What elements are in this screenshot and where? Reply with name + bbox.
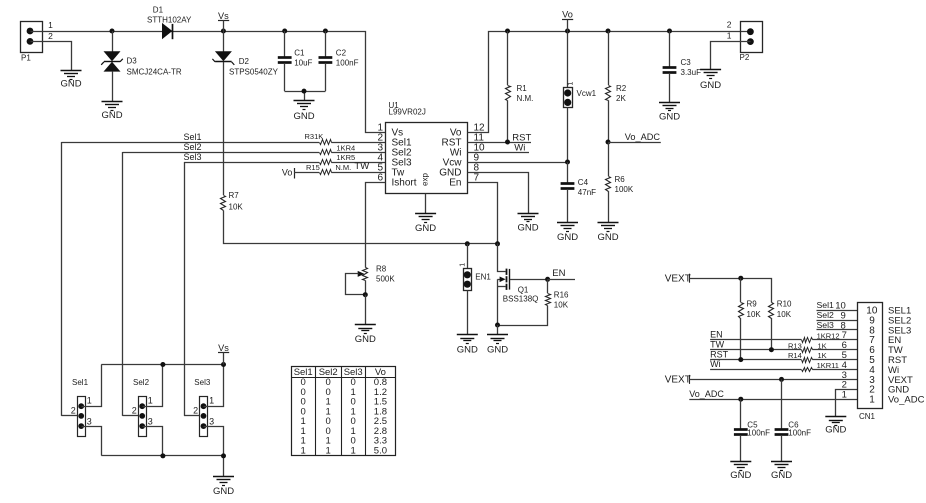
svg-text:GND: GND: [60, 79, 81, 90]
svg-text:Sel1: Sel1: [817, 300, 835, 310]
ground: [659, 103, 680, 123]
diode D1 STTH102AY: [147, 5, 192, 39]
connector P2: [727, 20, 763, 62]
wire Q1 source to gnd: [497, 325, 499, 335]
ground: [355, 325, 376, 345]
node Vo label: [562, 9, 573, 31]
svg-text:GND: GND: [457, 344, 478, 355]
transistor Q1 BSS138Q: [498, 244, 548, 326]
wire Vs rail: [31, 32, 386, 133]
TVS diode D3 SMCJ24CA-TR: [101, 31, 182, 102]
svg-text:1KR4: 1KR4: [336, 143, 355, 152]
node Vs junction: [221, 29, 226, 34]
svg-text:2K: 2K: [616, 94, 626, 103]
ground: [60, 71, 81, 90]
node R2 junction: [606, 29, 611, 34]
svg-text:100nF: 100nF: [336, 59, 359, 68]
wire Sel2 pin2: [123, 415, 139, 417]
potentiometer R8 500K: [346, 265, 396, 295]
node VEXT label top: [665, 273, 691, 284]
svg-text:1: 1: [209, 396, 214, 406]
node Vo_ADC junction: [606, 140, 611, 145]
svg-text:CN1: CN1: [859, 412, 876, 421]
connector CN1: [858, 303, 925, 422]
wire Sel3 pin2: [184, 415, 199, 417]
ground: [101, 102, 122, 122]
wire Sel2 pin1: [143, 365, 163, 407]
ground: [557, 223, 578, 244]
svg-text:7: 7: [474, 172, 480, 183]
svg-text:N.M.: N.M.: [517, 94, 534, 103]
svg-text:10K: 10K: [777, 310, 792, 319]
svg-text:100nF: 100nF: [788, 428, 811, 437]
svg-text:1: 1: [87, 396, 92, 406]
svg-text:C3: C3: [681, 58, 692, 67]
svg-text:L99VR02J: L99VR02J: [389, 107, 426, 116]
svg-text:Vcw1: Vcw1: [577, 89, 597, 98]
svg-text:1: 1: [459, 263, 466, 267]
wire Sel3 pin1: [204, 365, 224, 407]
svg-text:SMCJ24CA-TR: SMCJ24CA-TR: [127, 67, 182, 76]
svg-text:1: 1: [869, 395, 875, 406]
node EN label: [548, 268, 575, 279]
wire TW to CN1 pin 6: [710, 339, 857, 349]
node C5 junction: [738, 397, 743, 402]
wire U1 gnd: [425, 194, 427, 214]
node Vs lower junction a: [160, 362, 165, 367]
svg-text:1: 1: [727, 31, 732, 41]
svg-text:P1: P1: [21, 54, 31, 63]
wire RST to CN1 pin 5: [710, 349, 857, 359]
svg-text:GND: GND: [355, 334, 376, 345]
jumper Vcw1: [564, 31, 597, 162]
resistor R5 1K: [320, 153, 356, 165]
capacitor C1 10uF: [278, 31, 313, 91]
wire Sel1 to CN1 pin 10: [817, 300, 858, 311]
svg-text:D2: D2: [239, 57, 250, 66]
resistor R3 1K: [305, 132, 332, 144]
svg-text:C2: C2: [336, 49, 347, 58]
svg-text:R9: R9: [747, 300, 758, 309]
svg-text:GND: GND: [730, 470, 751, 481]
svg-text:C4: C4: [578, 178, 589, 187]
node Vs label: [218, 11, 229, 31]
svg-text:10K: 10K: [229, 203, 244, 212]
wire VEXT to CN1 pin 3: [689, 370, 857, 381]
svg-text:BSS138Q: BSS138Q: [503, 295, 539, 304]
jumper Sel2: [132, 378, 153, 437]
svg-text:47nF: 47nF: [578, 188, 596, 197]
svg-text:GND: GND: [825, 424, 846, 435]
svg-text:R8: R8: [376, 265, 387, 274]
node RST junction: [505, 140, 510, 145]
svg-text:En: En: [449, 178, 461, 189]
svg-text:TW: TW: [354, 161, 369, 172]
node EN junction: [545, 277, 550, 282]
svg-text:1KR11: 1KR11: [817, 361, 839, 370]
node pin 7 number: [842, 330, 847, 341]
svg-text:Vo: Vo: [282, 167, 293, 177]
svg-text:Vo_ADC: Vo_ADC: [689, 389, 724, 399]
svg-text:2: 2: [193, 406, 198, 416]
node C1 junction: [282, 29, 287, 34]
svg-text:VEXT: VEXT: [665, 273, 691, 284]
node VEXT label lower: [665, 374, 691, 385]
node C2 junction: [323, 29, 328, 34]
resistor R7 10K: [221, 191, 244, 212]
svg-text:500K: 500K: [376, 275, 395, 284]
ground: [457, 335, 478, 356]
node gnd lower junction a: [160, 453, 165, 458]
svg-text:Vo_ADC: Vo_ADC: [625, 132, 661, 142]
svg-text:10uF: 10uF: [294, 59, 312, 68]
capacitor C5 100nF: [734, 399, 770, 461]
resistor R1 N.M.: [506, 31, 534, 142]
svg-text:GND: GND: [659, 112, 680, 123]
svg-text:1: 1: [842, 390, 847, 401]
svg-text:GND: GND: [415, 223, 436, 234]
svg-text:2: 2: [727, 20, 732, 30]
svg-text:D3: D3: [127, 57, 138, 66]
node pin 5 number: [842, 350, 847, 361]
svg-text:Wi: Wi: [514, 143, 525, 154]
svg-text:6: 6: [377, 172, 383, 183]
svg-text:R1: R1: [517, 84, 528, 93]
svg-text:exp: exp: [421, 173, 430, 186]
wire Sel1 pin1: [82, 365, 102, 407]
wire P2 pin1 to gnd: [711, 42, 751, 70]
node R9 bottom junction: [738, 357, 743, 362]
svg-text:5.0: 5.0: [374, 445, 387, 456]
wire CN1 pin 2 to gnd: [836, 380, 858, 417]
node R10 bottom junction: [769, 347, 774, 352]
svg-text:1: 1: [301, 445, 306, 456]
capacitor C2 100nF: [319, 31, 359, 91]
wire VEXT top: [690, 279, 772, 303]
svg-text:D1: D1: [153, 5, 164, 14]
svg-text:3.3uF: 3.3uF: [681, 68, 702, 77]
resistor R12 1K: [802, 331, 840, 342]
node pin 6 number: [842, 340, 847, 351]
svg-text:3: 3: [148, 416, 153, 426]
jumper Sel1: [71, 378, 92, 437]
wire R7 to EN row: [224, 211, 498, 244]
ground: [487, 335, 508, 356]
wire Sel1 pin2: [61, 415, 77, 417]
wire Sel2 net: [123, 142, 386, 416]
svg-text:GND: GND: [487, 344, 508, 355]
svg-text:3: 3: [87, 416, 92, 426]
svg-text:R7: R7: [229, 191, 240, 200]
wire EN to CN1 pin 7: [710, 330, 857, 340]
ground: [730, 462, 751, 481]
node Vs label lower: [218, 343, 229, 365]
resistor R13 1K: [788, 341, 827, 352]
svg-text:R15: R15: [306, 163, 320, 172]
svg-text:1: 1: [148, 396, 153, 406]
node C1C2 gnd junction: [302, 89, 307, 94]
svg-text:2: 2: [132, 406, 137, 416]
svg-text:R13: R13: [788, 341, 802, 350]
node R9 top junction: [738, 276, 743, 281]
wire Vcw pin9: [467, 162, 567, 164]
svg-text:R14: R14: [788, 351, 802, 360]
node gnd lower junction b: [221, 453, 226, 458]
svg-text:Vo: Vo: [562, 9, 573, 19]
svg-text:10K: 10K: [554, 301, 569, 310]
svg-text:Ishort: Ishort: [392, 178, 417, 189]
wire Sel3 pin3: [204, 427, 224, 456]
svg-text:100nF: 100nF: [747, 428, 770, 437]
svg-text:Sel1: Sel1: [72, 378, 89, 387]
ground: [825, 417, 846, 436]
svg-text:EN1: EN1: [475, 272, 491, 281]
svg-text:GND: GND: [557, 232, 578, 243]
resistor R14 1K: [788, 351, 827, 362]
node C3 junction: [667, 29, 672, 34]
node R8 wiper junction: [363, 292, 368, 297]
wire Sel2 to CN1 pin 9: [817, 310, 858, 321]
svg-text:1: 1: [351, 445, 356, 456]
svg-text:GND: GND: [213, 486, 234, 497]
svg-text:Sel3: Sel3: [184, 152, 202, 162]
node R1 junction: [505, 29, 510, 34]
svg-text:Vs: Vs: [218, 343, 229, 353]
svg-text:Sel3: Sel3: [817, 320, 835, 330]
svg-text:1: 1: [326, 445, 331, 456]
resistor R16 10K: [498, 279, 570, 325]
resistor R2 2K: [606, 31, 627, 142]
wire RST pin11: [467, 133, 531, 144]
svg-text:Vs: Vs: [218, 11, 229, 21]
svg-text:Sel2: Sel2: [184, 142, 202, 152]
wire En pin7: [468, 183, 498, 244]
wire Vo pin12: [468, 32, 748, 133]
svg-text:Sel1: Sel1: [184, 132, 202, 142]
capacitor C4 47nF: [561, 162, 597, 223]
svg-text:Sel3: Sel3: [194, 378, 211, 387]
wire Sel3 net: [184, 152, 386, 416]
svg-text:STPS0540ZY: STPS0540ZY: [229, 68, 279, 77]
wire Ishort pin6: [366, 183, 386, 268]
svg-text:EN: EN: [710, 330, 723, 340]
node Vcw junction: [565, 160, 570, 165]
svg-text:3: 3: [209, 416, 214, 426]
svg-text:100K: 100K: [615, 185, 634, 194]
IC U1 L99VR02J: [377, 101, 485, 194]
svg-text:R16: R16: [554, 291, 569, 300]
resistor R11 1K: [802, 361, 839, 371]
ground: [293, 101, 314, 122]
svg-text:N.M.: N.M.: [335, 163, 351, 172]
svg-text:Q1: Q1: [518, 285, 529, 294]
svg-text:1KR5: 1KR5: [336, 153, 355, 162]
wire Sel1 net: [61, 132, 385, 416]
ground: [771, 462, 792, 481]
node Vs lower junction b: [221, 362, 226, 367]
svg-text:R2: R2: [616, 84, 627, 93]
node EN1 junction: [465, 241, 470, 246]
jumper EN1: [459, 244, 491, 335]
ground: [415, 214, 436, 234]
svg-text:1K: 1K: [818, 351, 827, 360]
svg-text:1K: 1K: [818, 341, 827, 350]
svg-text:1: 1: [567, 82, 574, 86]
svg-text:P2: P2: [740, 53, 750, 62]
jumper Sel3: [193, 378, 214, 437]
svg-text:GND: GND: [597, 232, 618, 243]
wire C1 C2 to ground: [285, 91, 326, 100]
svg-text:GND: GND: [700, 80, 721, 91]
svg-text:GND: GND: [101, 110, 122, 121]
node Vo label at R15: [282, 167, 386, 178]
connector P1: [21, 20, 54, 63]
resistor R15 N.M.: [306, 163, 351, 174]
resistor R10 10K: [769, 300, 793, 350]
capacitor C6 100nF: [775, 379, 811, 461]
schottky diode D2 STPS0540ZY: [212, 31, 278, 77]
svg-text:Sel2: Sel2: [133, 378, 150, 387]
resistor R6 100K: [606, 142, 634, 223]
svg-text:2: 2: [71, 406, 76, 416]
node Vcw1 junction: [565, 29, 570, 34]
wire P1 pin2: [31, 42, 72, 71]
node D3 junction: [110, 29, 115, 34]
svg-text:Vo_ADC: Vo_ADC: [888, 395, 925, 406]
resistor R4 1K: [320, 143, 356, 154]
table Sel truth table: [291, 366, 395, 456]
wire Wi to CN1 pin 4: [710, 359, 857, 369]
wire Wi pin10: [467, 143, 529, 154]
resistor R9 10K: [739, 278, 762, 359]
svg-text:GND: GND: [771, 470, 792, 481]
wire Sel3 to CN1 pin 8: [817, 320, 858, 331]
svg-text:2: 2: [48, 31, 53, 41]
wire Sel2 pin3: [143, 427, 163, 456]
svg-text:RST: RST: [710, 349, 729, 359]
ground: [517, 214, 538, 234]
wire Sel1 pin3: [82, 427, 102, 456]
svg-text:EN: EN: [552, 268, 565, 279]
svg-text:10K: 10K: [747, 310, 762, 319]
ground: [597, 223, 618, 244]
wire R8 to gnd: [365, 295, 367, 325]
svg-text:GND: GND: [293, 111, 314, 122]
wire Vo_ADC to CN1 pin 1: [689, 389, 857, 401]
capacitor C3 3.3uF: [663, 31, 701, 102]
node Vo_ADC label: [608, 132, 661, 142]
svg-text:TW: TW: [710, 339, 724, 349]
ground: [213, 477, 234, 498]
wire GND pin8: [468, 173, 529, 214]
node Q1 drain junction: [495, 241, 500, 246]
ground: [700, 70, 721, 92]
svg-text:Sel2: Sel2: [817, 310, 835, 320]
svg-text:1KR12: 1KR12: [817, 331, 840, 340]
svg-text:C1: C1: [294, 49, 305, 58]
svg-text:VEXT: VEXT: [665, 374, 691, 385]
node TW label: [354, 161, 369, 172]
svg-text:R6: R6: [615, 175, 626, 184]
svg-text:R31K: R31K: [305, 132, 324, 141]
svg-text:Wi: Wi: [710, 359, 721, 369]
svg-text:GND: GND: [517, 223, 538, 234]
wire Vs lower rail: [101, 364, 223, 366]
wire gnd lower rail: [101, 456, 223, 477]
node C6 junction: [779, 377, 784, 382]
wire D2 to R7: [223, 62, 225, 195]
node Q1 source junction: [495, 323, 500, 328]
svg-text:1: 1: [48, 20, 53, 30]
node pin 4 number: [842, 360, 847, 371]
svg-text:R10: R10: [777, 300, 792, 309]
svg-text:STTH102AY: STTH102AY: [147, 15, 192, 24]
